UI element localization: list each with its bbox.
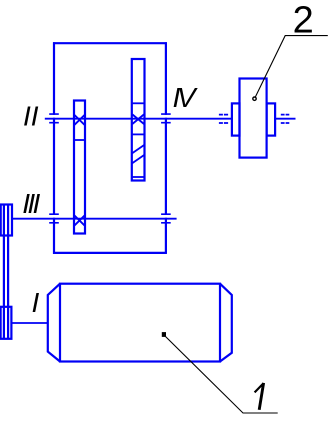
svg-text:III: III (22, 188, 40, 219)
pulley on shaft I (1, 307, 12, 339)
coupling left flange (232, 103, 240, 135)
sliding block section line 1 (132, 102, 145, 104)
belt line 2 (7, 205, 9, 339)
coupling right flange (267, 103, 276, 135)
sliding block section line 3 (132, 176, 145, 178)
gearbox housing bottom wall (53, 252, 167, 254)
leader dot of label 1 (162, 332, 166, 337)
fixed joint X on shaft III (left gear) (75, 216, 85, 226)
shaft III axis line (13, 218, 177, 220)
shaft II / IV axis line (45, 118, 296, 120)
motor right end cap (220, 284, 232, 362)
svg-text:IV: IV (173, 82, 198, 113)
fixed joint X on shaft II (left gear) (75, 115, 85, 125)
bearing right wall shaft III (161, 214, 171, 223)
leader line of label 1 (166, 337, 278, 414)
gearbox housing top wall (53, 42, 167, 44)
leader line of label 2 (255, 36, 327, 97)
svg-text:I: I (32, 287, 40, 318)
fixed joint X on shaft II (right gear) (132, 114, 144, 124)
motor left end cap (48, 284, 60, 362)
coupling 2 center body (240, 79, 267, 158)
sliding block section line 2 (132, 133, 145, 135)
belt line 1 (3, 205, 5, 339)
sliding gear block outline (132, 59, 145, 181)
svg-text:2: 2 (293, 0, 314, 41)
bearing right wall shaft II (161, 114, 171, 123)
motor 1 body (60, 284, 220, 362)
leader dot of label 2 (253, 97, 256, 100)
gear block section line (74, 139, 85, 141)
gear block on shafts II-III outline (74, 101, 85, 234)
svg-text:II: II (23, 100, 39, 131)
bearing left wall shaft II (49, 114, 59, 123)
shaft I (motor shaft) line (11, 322, 47, 324)
gearbox housing right wall (gaps at bearings) (165, 42, 167, 254)
pulley on shaft III (1, 205, 12, 236)
label 1 (motor) (255, 383, 264, 392)
shaft IV break marks right (281, 115, 290, 123)
shaft IV break marks left (219, 115, 228, 123)
hatch stroke 2 (132, 155, 145, 164)
bearing left wall shaft III (49, 214, 59, 223)
gearbox housing left wall (gaps at bearings) (53, 42, 55, 254)
hatch stroke 1 (132, 145, 145, 154)
